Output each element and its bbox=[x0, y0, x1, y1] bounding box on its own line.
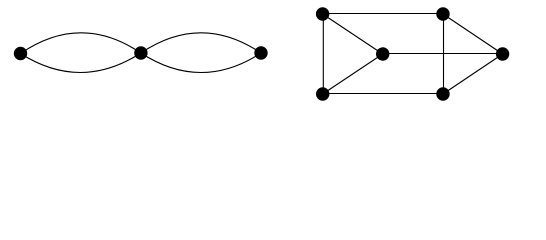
wire edge TL-BL bbox=[322, 14, 324, 94]
wire edge TL-TR bbox=[323, 13, 443, 15]
wire edge L2-L3 upper arc bbox=[141, 33, 261, 53]
wire edge C-BL bbox=[323, 54, 383, 94]
node BM bbox=[436, 87, 449, 100]
node R bbox=[496, 47, 509, 60]
wire edge TR-BM bbox=[443, 14, 445, 94]
node C bbox=[376, 47, 389, 60]
node TR bbox=[436, 7, 449, 20]
wire edge L1-L2 upper arc bbox=[21, 33, 141, 54]
wire edge TL-C bbox=[323, 14, 383, 54]
wire edge C-R bbox=[383, 53, 503, 55]
node L1 bbox=[14, 47, 27, 60]
wire edge BL-BM bbox=[323, 93, 443, 95]
wire edge BM-R bbox=[443, 54, 503, 94]
node BL bbox=[316, 87, 329, 100]
wire edge TR-R bbox=[443, 14, 503, 54]
node TL bbox=[316, 7, 329, 20]
wire edge L2-L3 lower arc bbox=[141, 53, 261, 73]
node L3 bbox=[254, 46, 267, 59]
wire edge L1-L2 lower arc bbox=[21, 53, 141, 73]
node L2 bbox=[134, 46, 147, 59]
